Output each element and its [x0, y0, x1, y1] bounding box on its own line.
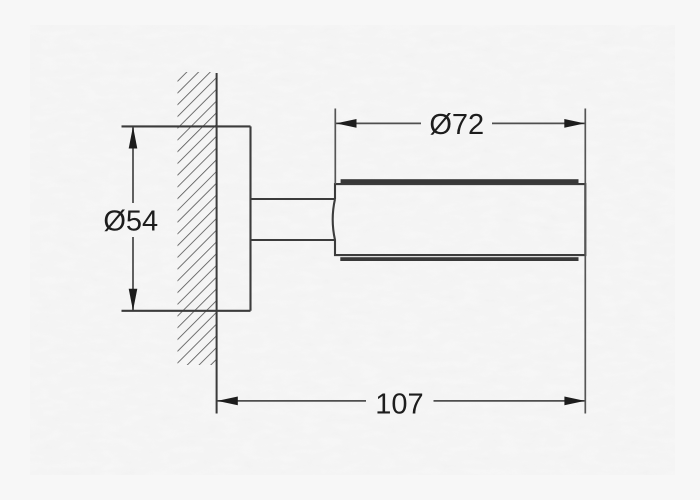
- arm top edge: [251, 198, 335, 200]
- cylinder bottom insert band: [340, 257, 578, 261]
- D72 arrow right: [564, 119, 585, 128]
- svg-text:Ø54: Ø54: [103, 206, 158, 238]
- svg-text:Ø72: Ø72: [429, 109, 484, 141]
- background mottle texture: [0, 0, 1, 1]
- cylinder top insert band: [341, 179, 579, 183]
- dimension 107 line left segment: [218, 400, 367, 402]
- D54 arrow down: [129, 289, 138, 311]
- 107 arrow right: [564, 397, 585, 406]
- wall plate right edge: [249, 126, 251, 310]
- 107 arrow left: [217, 397, 238, 406]
- wall surface line: [216, 73, 218, 414]
- D72 / 107 right extension line: [584, 109, 586, 414]
- D72 arrow left: [336, 119, 357, 128]
- D72 left extension line: [334, 109, 336, 185]
- svg-text:107: 107: [375, 388, 423, 420]
- wall hatching: [178, 72, 217, 365]
- D54 arrow up: [129, 126, 138, 148]
- dimension 107 line right segment: [434, 400, 585, 402]
- dimension D72 line right segment: [492, 122, 585, 124]
- dimension D54 line lower segment: [132, 237, 134, 310]
- wall plate top edge / extension line: [122, 125, 251, 127]
- dimension D54 line upper segment: [132, 127, 134, 203]
- arm bottom edge: [251, 239, 335, 241]
- dimension D72 line left segment: [336, 122, 421, 124]
- wall plate bottom edge / extension line: [122, 310, 251, 312]
- holder cylinder outline: [333, 184, 586, 255]
